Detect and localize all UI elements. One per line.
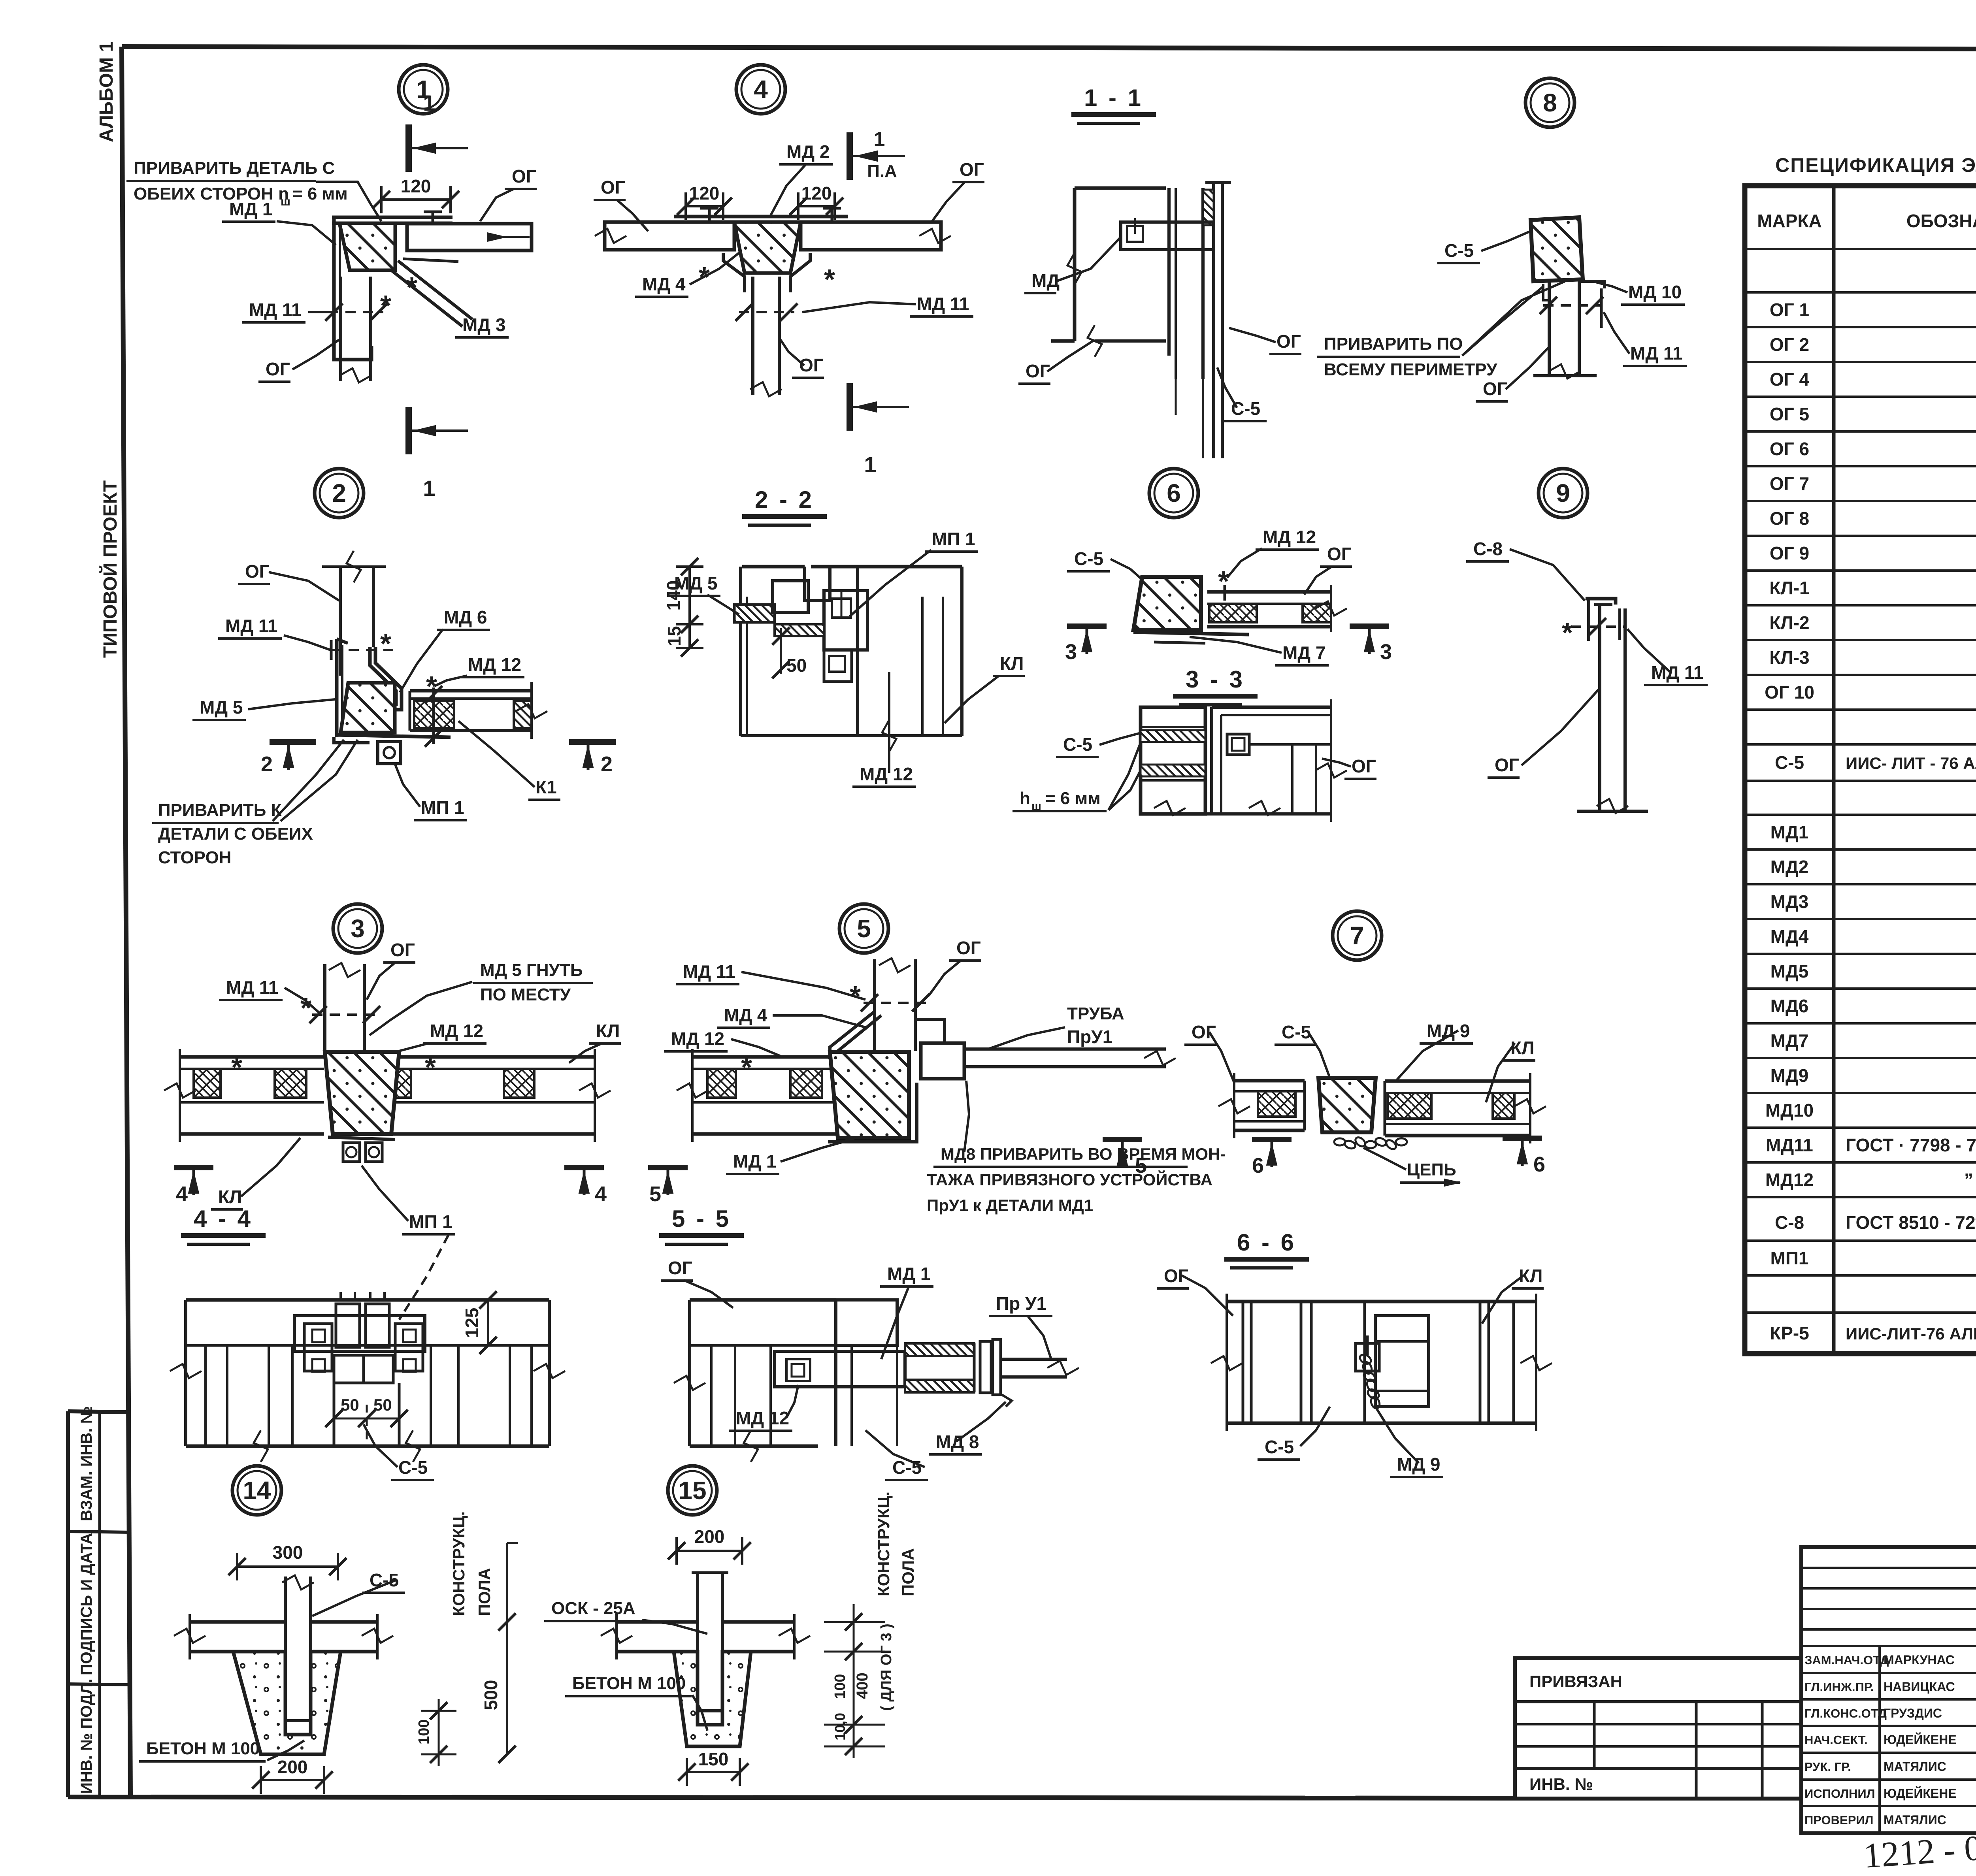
node 7 section marks 6: [1252, 1138, 1545, 1177]
node 1 section cut top: [405, 124, 412, 172]
svg-text:1: 1: [423, 90, 435, 115]
svg-text:МД 11: МД 11: [1630, 343, 1683, 364]
node 7 labels: [1184, 1022, 1234, 1083]
svg-text:РУК. ГР.: РУК. ГР.: [1804, 1760, 1851, 1774]
svg-text:125: 125: [462, 1308, 482, 1338]
svg-text:ИНВ. №: ИНВ. №: [1529, 1775, 1593, 1793]
node 2 marker circle: [315, 469, 364, 518]
svg-text:2: 2: [332, 479, 346, 507]
node 2 weld note: [152, 740, 358, 867]
node 15 foundation pit: [674, 1652, 751, 1746]
node 2 label К1: [458, 721, 560, 800]
node 1 label МД1: [222, 199, 336, 245]
svg-text:МД 11: МД 11: [226, 977, 279, 998]
node 3 МП1 hinges below: [328, 1137, 395, 1162]
node 6 concrete block: [1133, 577, 1201, 630]
bottom annotation 1212-01 КОПИРОВАЛ: [1862, 1827, 1976, 1876]
node 1 left channel: [334, 217, 371, 360]
node 1 bolt dashed МД11: [325, 290, 391, 322]
section 3-3 label hш=6мм: [1013, 743, 1141, 813]
node 9 angle post: [1577, 599, 1648, 813]
svg-text:10,0: 10,0: [832, 1713, 848, 1740]
node 4 top plate: [674, 217, 848, 222]
svg-text:ТАЖА ПРИВЯЗНОГО УСТРОЙСТВА: ТАЖА ПРИВЯЗНОГО УСТРОЙСТВА: [927, 1170, 1212, 1189]
svg-text:МД 11: МД 11: [683, 961, 735, 982]
svg-text:*: *: [380, 628, 391, 660]
node 4 label МД2: [771, 141, 833, 215]
node 1 concrete post head: [339, 223, 395, 270]
node 4 label МД11: [802, 294, 973, 316]
svg-text:С-8: С-8: [1473, 539, 1503, 559]
svg-text:140: 140: [663, 580, 684, 611]
node 5 label МД4: [717, 1005, 865, 1028]
svg-text:ПРОВЕРИЛ: ПРОВЕРИЛ: [1804, 1813, 1873, 1827]
svg-text:МД9: МД9: [1770, 1065, 1809, 1086]
svg-text:ОГ 5: ОГ 5: [1770, 404, 1809, 424]
node 9 bolt dashed: [1562, 617, 1624, 649]
node 14 floor slab: [174, 1614, 393, 1659]
node 3 right panel band: [366, 1049, 611, 1142]
section 6-6 label ОГ: [1157, 1266, 1233, 1316]
svg-text:МД12: МД12: [1765, 1170, 1814, 1190]
svg-text:МП 1: МП 1: [409, 1211, 453, 1232]
node 6 label ОГ: [1304, 544, 1352, 595]
node 14 label БЕТОН М100: [139, 1739, 304, 1761]
svg-text:МД5: МД5: [1770, 961, 1809, 981]
specification table grid: [1745, 186, 1976, 1354]
svg-text:С-5: С-5: [1074, 548, 1103, 569]
svg-text:МД 5 ГНУТЬ: МД 5 ГНУТЬ: [480, 961, 583, 980]
svg-text:200: 200: [694, 1526, 725, 1547]
svg-text:НАВИЦКАС: НАВИЦКАС: [1884, 1680, 1955, 1694]
svg-text:ОГ 4: ОГ 4: [1770, 369, 1810, 390]
node 5 note МД8 приварить: [927, 1081, 1226, 1215]
svg-text:С-5: С-5: [1282, 1022, 1311, 1042]
svg-text:ПОЛА: ПОЛА: [475, 1568, 494, 1616]
node 1 top plate: [332, 217, 453, 223]
node 5 concrete post: [830, 1052, 909, 1138]
svg-text:МД 1: МД 1: [733, 1151, 776, 1172]
svg-text:МД 2: МД 2: [786, 141, 830, 162]
node 2 post ОГ: [322, 551, 386, 676]
section 1-1 label МД: [1024, 237, 1121, 293]
svg-text:15: 15: [664, 626, 684, 646]
svg-text:15: 15: [678, 1476, 706, 1505]
svg-text:ОГ 1: ОГ 1: [1770, 299, 1809, 320]
node 6 marker circle: [1149, 469, 1198, 518]
svg-text:4 - 4: 4 - 4: [194, 1205, 253, 1232]
node 8 label МД10: [1593, 281, 1685, 305]
svg-text:ОСК - 25А: ОСК - 25А: [551, 1599, 635, 1618]
node 3 label МД12: [377, 1021, 486, 1059]
section 4-4 label МП1: [399, 1235, 449, 1320]
node 3 label ОГ: [367, 940, 415, 1000]
svg-text:Пр У1: Пр У1: [996, 1293, 1046, 1314]
svg-text:50: 50: [373, 1396, 392, 1414]
node 7 right panel: [1385, 1073, 1546, 1143]
node 5 label МД1: [726, 1138, 858, 1174]
svg-text:ГЛ.КОНС.ОТД: ГЛ.КОНС.ОТД: [1804, 1706, 1887, 1720]
svg-text:ИИС-ЛИТ-76 АЛЬБОМ V /1: ИИС-ЛИТ-76 АЛЬБОМ V /1: [1846, 1324, 1976, 1343]
svg-text:ОГ: ОГ: [1192, 1022, 1216, 1042]
svg-text:50: 50: [341, 1396, 359, 1414]
svg-text:МД 7: МД 7: [1282, 642, 1326, 663]
svg-text:*: *: [380, 290, 391, 322]
node 3 concrete post: [325, 1052, 399, 1134]
node 2 label МД6: [400, 607, 490, 692]
node 2 МД5 channel: [334, 639, 370, 743]
section 5-5 label МД12: [729, 1385, 798, 1431]
svg-text:МД1: МД1: [1770, 822, 1809, 842]
svg-text:ОГ: ОГ: [245, 561, 270, 582]
node 8 label ОГ: [1476, 348, 1548, 401]
node 1 marker circle: [399, 65, 448, 114]
section 5-5 label С-5: [865, 1430, 928, 1480]
svg-text:МД 11: МД 11: [1651, 662, 1704, 683]
svg-text:С-5: С-5: [398, 1457, 428, 1478]
svg-text:МД 10: МД 10: [1628, 282, 1682, 302]
svg-text:КЛ-1: КЛ-1: [1769, 578, 1809, 598]
svg-text:400: 400: [854, 1673, 871, 1699]
svg-text:МД 12: МД 12: [468, 654, 521, 675]
node 15 right dims: [824, 1492, 917, 1758]
section 6-6 label МД9: [1375, 1407, 1443, 1477]
svg-text:МП1: МП1: [1770, 1248, 1809, 1268]
svg-text:С-5: С-5: [1444, 240, 1474, 261]
node 2 bottom plate: [336, 735, 451, 737]
privjazan box: [1515, 1658, 1801, 1799]
section 2-2 dim 15: [688, 624, 691, 648]
section 4-4 dim 50 50: [325, 1396, 408, 1427]
node 1 dim 120: [381, 198, 451, 201]
svg-text:ЗАМ.НАЧ.ОТД: ЗАМ.НАЧ.ОТД: [1804, 1653, 1889, 1667]
node 3 marker circle: [333, 904, 382, 953]
left stamp column cells: [68, 1406, 130, 1797]
svg-text:ОГ 10: ОГ 10: [1765, 682, 1814, 703]
section 3-3 label С-5: [1056, 733, 1141, 757]
svg-text:ОГ: ОГ: [1327, 544, 1352, 564]
svg-text:1 - 1: 1 - 1: [1084, 85, 1143, 111]
svg-text:ОГ: ОГ: [1026, 361, 1050, 381]
svg-text:ПрУ1: ПрУ1: [1067, 1027, 1112, 1047]
svg-text:2 - 2: 2 - 2: [755, 486, 814, 513]
svg-text:4: 4: [176, 1182, 188, 1206]
section 2-2 label МД5: [667, 573, 739, 614]
svg-text:МД 12: МД 12: [736, 1408, 789, 1428]
svg-text:БЕТОН М 100: БЕТОН М 100: [572, 1674, 686, 1693]
node 2 label ОГ: [238, 561, 339, 601]
svg-text:14: 14: [243, 1476, 271, 1505]
node 14 marker circle: [232, 1466, 281, 1515]
svg-text:ЮДЕЙКЕНЕ: ЮДЕЙКЕНЕ: [1884, 1733, 1957, 1747]
section 3-3 drawing: [1141, 699, 1347, 822]
node 9 label ОГ: [1488, 689, 1599, 778]
svg-text:ОГ: ОГ: [1352, 756, 1376, 776]
node 5 pipe bracket ТРУБА ПрУ1: [915, 1004, 1176, 1079]
svg-text:ТРУБА: ТРУБА: [1067, 1004, 1124, 1023]
node 8 label МД11: [1604, 312, 1687, 366]
svg-text:ПРИВАРИТЬ К: ПРИВАРИТЬ К: [158, 801, 282, 820]
svg-text:П.А: П.А: [867, 162, 897, 181]
node 4 dim 120 right: [798, 205, 835, 207]
svg-text:( ДЛЯ ОГ 3 ): ( ДЛЯ ОГ 3 ): [878, 1624, 895, 1711]
svg-text:КОНСТРУКЦ.: КОНСТРУКЦ.: [874, 1492, 893, 1596]
svg-text:ОГ: ОГ: [601, 177, 625, 198]
node 14 dim 500 and конструкция пола: [449, 1511, 518, 1763]
node 3 section marks 4: [174, 1168, 607, 1206]
svg-text:h: h: [1020, 789, 1030, 808]
node 2 section marks 2: [261, 742, 616, 776]
svg-text:КР-5: КР-5: [1770, 1323, 1809, 1343]
svg-text:2: 2: [601, 752, 613, 776]
node 6 base plate МД7: [1133, 632, 1249, 643]
svg-text:АЛЬБОМ 1: АЛЬБОМ 1: [96, 41, 117, 142]
node 5 section marks 5: [648, 1140, 1147, 1206]
section 5-5 label МД1: [880, 1264, 933, 1359]
node 15 label БЕТОН М100: [565, 1674, 707, 1731]
node 5 bent strap: [830, 1011, 881, 1059]
node 15 dim 200: [677, 1550, 742, 1552]
svg-text:ОГ 9: ОГ 9: [1770, 543, 1809, 563]
svg-text:МД2: МД2: [1770, 857, 1809, 877]
section 1-1 drawing: [1051, 183, 1231, 458]
node 4 bolt dashed МД11: [735, 303, 798, 321]
svg-text:1: 1: [864, 452, 876, 477]
svg-text:6: 6: [1167, 479, 1181, 507]
svg-text:МП 1: МП 1: [932, 529, 975, 549]
svg-text:С-5: С-5: [1775, 752, 1804, 773]
svg-text:*: *: [1562, 617, 1573, 649]
node 2 МП1 hinge: [378, 742, 401, 764]
svg-text:ГОСТ · 7798 - 70*: ГОСТ · 7798 - 70*: [1846, 1135, 1976, 1155]
node 2 panel К1: [410, 682, 547, 739]
svg-text:120: 120: [401, 176, 431, 196]
section 5-5 drawing: [674, 1300, 1079, 1462]
svg-text:ГОСТ 8510 - 72*: ГОСТ 8510 - 72*: [1846, 1212, 1976, 1233]
node 7 label ЦЕПЬ: [1363, 1148, 1460, 1186]
svg-text:100: 100: [416, 1720, 432, 1744]
node 15 label ОСК-25Д: [544, 1599, 707, 1634]
svg-text:МД 6: МД 6: [444, 607, 487, 627]
svg-text:ИСПОЛНИЛ: ИСПОЛНИЛ: [1804, 1787, 1875, 1801]
svg-text:8: 8: [1543, 89, 1557, 117]
svg-text:ОГ: ОГ: [512, 166, 536, 186]
svg-text:ГРУЗДИС: ГРУЗДИС: [1884, 1706, 1942, 1720]
svg-text:КОНСТРУКЦ.: КОНСТРУКЦ.: [449, 1511, 468, 1616]
svg-text:МД: МД: [1031, 270, 1060, 291]
node 14 post: [282, 1575, 314, 1721]
node 3 label КЛ bottom-left: [211, 1138, 300, 1209]
node 5 bolt dashed: [741, 981, 930, 1083]
node 7 chain: [1334, 1136, 1407, 1151]
svg-text:500: 500: [481, 1680, 501, 1710]
svg-text:200: 200: [277, 1757, 308, 1777]
node 2 label МД5: [192, 697, 335, 720]
node 2 bent bracket МД6: [370, 647, 402, 710]
node 4 label ОГ bottom: [781, 340, 824, 378]
svg-text:ПОЛА: ПОЛА: [899, 1548, 917, 1596]
svg-text:МД 9: МД 9: [1427, 1021, 1470, 1041]
node 14 dim 10|0: [416, 1699, 456, 1766]
svg-text:МД7: МД7: [1770, 1030, 1809, 1051]
svg-text:100: 100: [832, 1674, 848, 1699]
svg-text:1: 1: [874, 128, 885, 151]
svg-text:ДЕТАЛИ С ОБЕИХ: ДЕТАЛИ С ОБЕИХ: [158, 824, 313, 844]
svg-text:МД 11: МД 11: [249, 299, 302, 320]
svg-text:КЛ-2: КЛ-2: [1769, 612, 1809, 633]
section 4-4 label С-5: [364, 1424, 434, 1480]
node 1 label МД11: [242, 299, 328, 322]
svg-text:С-5: С-5: [1231, 398, 1260, 419]
svg-text:БЕТОН М 100: БЕТОН М 100: [146, 1739, 260, 1758]
svg-text:МД 1: МД 1: [229, 199, 272, 219]
svg-text:МАТЯЛИС: МАТЯЛИС: [1884, 1813, 1946, 1827]
node 6 panel band: [1207, 585, 1347, 632]
svg-text:300: 300: [273, 1542, 303, 1563]
svg-text:ВЗАМ. ИНВ. №: ВЗАМ. ИНВ. №: [78, 1406, 95, 1521]
node 14 foundation pit: [233, 1652, 341, 1754]
svg-text:1: 1: [423, 476, 435, 501]
svg-text:ПО МЕСТУ: ПО МЕСТУ: [480, 985, 571, 1004]
section 2-2 drawing: [734, 567, 962, 752]
section 4-4 drawing: [170, 1292, 565, 1462]
node 8 post: [1533, 281, 1605, 379]
svg-text:МД 1: МД 1: [887, 1264, 930, 1284]
node 2 concrete block: [341, 683, 395, 733]
svg-text:ВСЕМУ ПЕРИМЕТРУ: ВСЕМУ ПЕРИМЕТРУ: [1324, 360, 1497, 379]
specification table header row: [1757, 208, 1976, 231]
node 14 dim 200 bottom: [261, 1779, 324, 1781]
section 6-6 drawing: [1211, 1294, 1552, 1431]
svg-text:СТОРОН: СТОРОН: [158, 848, 231, 867]
section 3-3 label ОГ: [1322, 756, 1376, 779]
node 1 label ОГ top-right: [480, 166, 537, 221]
node 6 bolt asterisk МД12: [1218, 566, 1229, 601]
svg-text:ОГ 7: ОГ 7: [1770, 473, 1809, 494]
svg-text:50: 50: [786, 655, 807, 676]
node 5 marker circle: [839, 904, 888, 953]
node 2 label МД11: [218, 616, 330, 650]
svg-text:ЦЕПЬ: ЦЕПЬ: [1407, 1160, 1456, 1179]
node 7 concrete post: [1318, 1078, 1376, 1132]
section 6-6 label КЛ: [1482, 1266, 1544, 1324]
svg-text:ПРИВАРИТЬ ПО: ПРИВАРИТЬ ПО: [1324, 334, 1463, 354]
node 3 left panel band: [164, 1049, 324, 1142]
node 2 label МД12: [435, 654, 524, 686]
svg-text:4: 4: [595, 1182, 607, 1206]
svg-text:МД11: МД11: [1766, 1135, 1813, 1155]
node 4 marker circle: [736, 65, 785, 114]
svg-text:ОГ 2: ОГ 2: [1770, 334, 1809, 355]
svg-text:С-5: С-5: [1265, 1437, 1294, 1457]
node 1 gusset МД3 diagonal: [391, 261, 472, 326]
node 4 dim 120 left: [686, 205, 723, 207]
svg-text:150: 150: [698, 1749, 729, 1769]
svg-text:МАРКА: МАРКА: [1757, 211, 1822, 231]
node 9 marker circle: [1539, 469, 1588, 518]
node 9 label МД11: [1627, 629, 1708, 685]
node 6 label МД12: [1227, 527, 1319, 578]
node 5 panel band: [677, 1049, 875, 1142]
section 5-5 label ПрУ1: [989, 1293, 1052, 1359]
svg-text:МД4: МД4: [1770, 926, 1809, 947]
svg-text:ПРИВАРИТЬ ДЕТАЛЬ С: ПРИВАРИТЬ ДЕТАЛЬ С: [134, 158, 335, 178]
svg-text:МД 11: МД 11: [917, 294, 969, 314]
section 2-2 label МД12: [852, 672, 916, 787]
node 2 bolt dashed МД11: [331, 628, 393, 660]
svg-text:9: 9: [1556, 479, 1570, 507]
svg-text:МД8 ПРИВАРИТЬ ВО ВРЕМЯ МОН-: МД8 ПРИВАРИТЬ ВО ВРЕМЯ МОН-: [941, 1145, 1226, 1163]
node 1 label МД3: [455, 315, 509, 337]
svg-text:ОБОЗНАЧЕНИЕ: ОБОЗНАЧЕНИЕ: [1906, 211, 1976, 231]
svg-text:ОГ 6: ОГ 6: [1770, 439, 1809, 459]
section 1-1 label ОГ right: [1229, 328, 1301, 354]
section 2-2 dim 140: [688, 567, 691, 624]
svg-text:6: 6: [1252, 1154, 1264, 1177]
node 8 label С-5: [1437, 231, 1531, 263]
svg-text:3: 3: [1065, 640, 1077, 664]
svg-text:СПЕЦИФИКАЦИЯ ЭЛЕМЕНТОВ , ЗАМА: СПЕЦИФИКАЦИЯ ЭЛЕМЕНТОВ , ЗАМАРКИРОВАННЫХ…: [1775, 154, 1976, 176]
node 4 funnel and post: [723, 253, 810, 396]
svg-text:6 - 6: 6 - 6: [1237, 1229, 1296, 1256]
signature table: [1801, 1547, 1976, 1833]
svg-text:МД 4: МД 4: [642, 274, 686, 294]
node 4 label ОГ left: [594, 177, 648, 231]
svg-text:МД 12: МД 12: [671, 1028, 724, 1049]
node 14 dim 300: [237, 1565, 338, 1568]
node 1 post below: [340, 277, 371, 382]
node 4 label МД4: [635, 253, 739, 297]
svg-text:МД 3: МД 3: [462, 315, 505, 335]
svg-text:ТИПОВОЙ ПРОЕКТ: ТИПОВОЙ ПРОЕКТ: [99, 480, 121, 658]
svg-text:4: 4: [754, 75, 768, 104]
svg-text:МД 5: МД 5: [200, 697, 243, 718]
svg-text:ОГ: ОГ: [956, 938, 981, 958]
svg-text:НАЧ.СЕКТ.: НАЧ.СЕКТ.: [1804, 1733, 1868, 1747]
node 1 label ОГ bottom: [258, 340, 339, 382]
svg-text:КЛ: КЛ: [218, 1187, 242, 1207]
svg-text:МД 12: МД 12: [430, 1021, 483, 1041]
svg-text:2: 2: [261, 752, 273, 776]
svg-text:5: 5: [649, 1182, 661, 1206]
node 5 label МД11: [676, 961, 865, 1000]
node 15 floor slab: [601, 1614, 810, 1659]
node 6 label МД7: [1190, 637, 1329, 665]
section 1-1 label С-5: [1217, 367, 1267, 421]
node 7 marker circle: [1333, 911, 1382, 960]
node 2 label МП1: [395, 765, 467, 820]
svg-text:*: *: [300, 993, 311, 1024]
node 1 section cut bottom: [405, 407, 412, 454]
svg-text:МД3: МД3: [1770, 891, 1809, 912]
node 4 beams: [595, 222, 951, 250]
svg-text:МАТЯЛИС: МАТЯЛИС: [1884, 1759, 1946, 1774]
node 1 weld note text: [126, 158, 381, 221]
svg-text:ОГ: ОГ: [266, 359, 290, 379]
section 2-2 dim 50: [772, 627, 807, 678]
svg-text:С-8: С-8: [1775, 1212, 1804, 1233]
svg-text:ЮДЕЙКЕНЕ: ЮДЕЙКЕНЕ: [1884, 1786, 1957, 1801]
section 2-2 label МП1: [850, 529, 978, 616]
svg-text:ГЛ.ИНЖ.ПР.: ГЛ.ИНЖ.ПР.: [1804, 1680, 1874, 1694]
node 1 bolt: [403, 212, 458, 303]
node 4 concrete head: [734, 222, 801, 273]
svg-text:5: 5: [857, 914, 871, 943]
node 8 weld note: [1317, 281, 1565, 379]
node 4 bolts: [699, 208, 841, 296]
svg-text:= 6 мм: = 6 мм: [292, 184, 348, 203]
node 3 label МП1: [362, 1166, 455, 1234]
